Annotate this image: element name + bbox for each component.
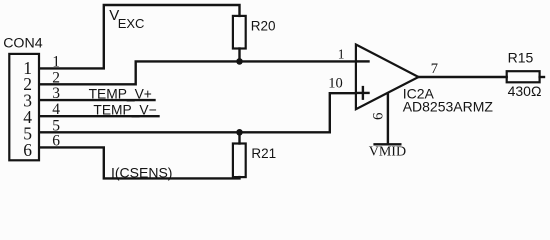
svg-text:6: 6 bbox=[52, 132, 60, 149]
resistor R21 body bbox=[233, 144, 246, 178]
wire pin4 TEMP_V- stub bbox=[40, 115, 159, 117]
wire R15 right stub bbox=[540, 76, 544, 78]
wire pin3 TEMP_V+ stub bbox=[40, 99, 155, 101]
wire R21 top stub bbox=[238, 132, 240, 143]
op-amp U IC2A triangle bbox=[356, 45, 419, 110]
svg-text:R20: R20 bbox=[251, 18, 276, 33]
wire op-amp output to R15 bbox=[419, 76, 507, 78]
svg-text:430Ω: 430Ω bbox=[508, 83, 542, 99]
wire pin1 to V_EXC top rail bbox=[40, 5, 240, 68]
wire pin number labels bbox=[52, 53, 60, 149]
wire pin6 to I(CSENS) / R21 bottom bbox=[40, 147, 240, 178]
wire pin2 to op-amp inverting input bbox=[40, 61, 356, 84]
connector inside pin numbers bbox=[23, 58, 32, 160]
resistor R20 body bbox=[233, 16, 246, 49]
svg-text:EXC: EXC bbox=[118, 16, 145, 31]
node junction R20/wire2 bbox=[236, 58, 243, 65]
resistor R15 body bbox=[507, 71, 540, 82]
svg-text:TEMP_V+: TEMP_V+ bbox=[89, 86, 152, 101]
svg-text:3: 3 bbox=[52, 85, 60, 102]
svg-text:4: 4 bbox=[52, 101, 60, 118]
op-amp plus sign bbox=[357, 87, 368, 99]
svg-text:1: 1 bbox=[52, 53, 60, 70]
node junction R21/wire5 bbox=[236, 129, 243, 136]
op-amp minus sign bbox=[358, 60, 369, 62]
svg-text:AD8253ARMZ: AD8253ARMZ bbox=[403, 98, 494, 114]
VMID rail bar bbox=[375, 143, 401, 145]
svg-text:TEMP_V−: TEMP_V− bbox=[93, 102, 156, 117]
svg-text:6: 6 bbox=[23, 140, 32, 160]
svg-text:VMID: VMID bbox=[369, 144, 406, 159]
svg-text:1: 1 bbox=[338, 46, 345, 61]
wire R20 bottom stub bbox=[238, 49, 240, 62]
svg-text:CON4: CON4 bbox=[3, 36, 43, 52]
connector CON4 body bbox=[9, 54, 39, 160]
svg-text:6: 6 bbox=[370, 112, 386, 120]
svg-text:R21: R21 bbox=[251, 146, 276, 161]
svg-text:7: 7 bbox=[431, 61, 438, 77]
wire op-amp pin6 down to VMID bbox=[387, 93, 389, 143]
svg-text:I(CSENS): I(CSENS) bbox=[111, 164, 172, 180]
wire pin5 to op-amp non-inverting input bbox=[40, 93, 356, 132]
svg-text:R15: R15 bbox=[508, 50, 534, 66]
svg-text:2: 2 bbox=[52, 69, 60, 86]
svg-text:10: 10 bbox=[328, 75, 343, 91]
